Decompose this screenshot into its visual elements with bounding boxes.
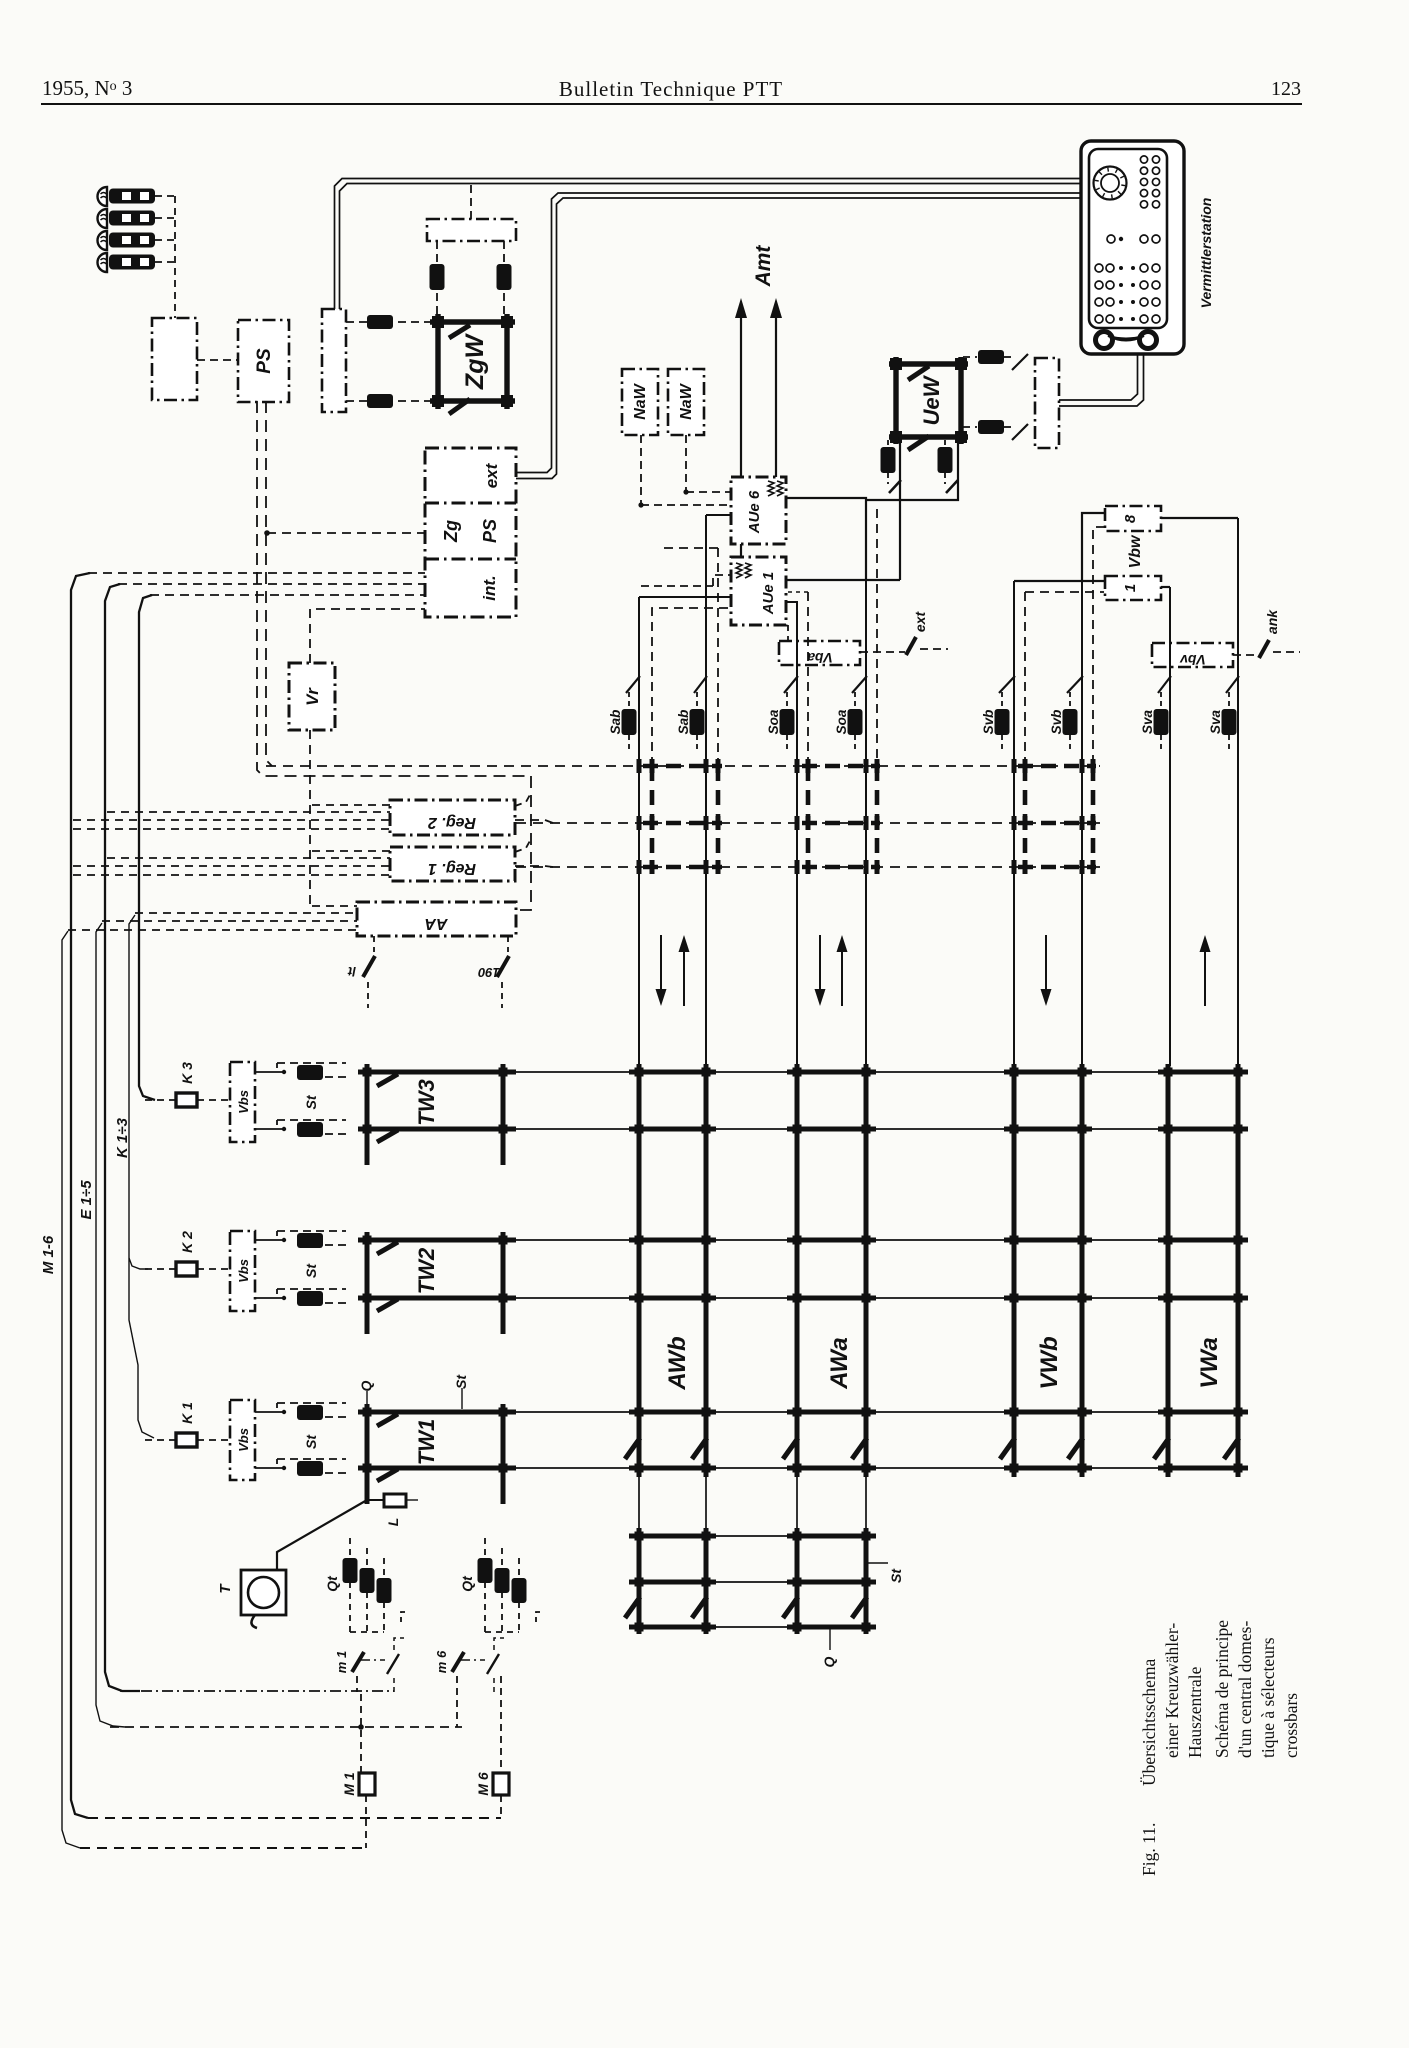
- wire NaW1 to AUe1: [641, 585, 713, 587]
- wire PS junction to Zg: [267, 532, 425, 534]
- wire K1 left: [145, 1439, 176, 1441]
- wire UeW left drop: [899, 437, 901, 580]
- wire m 6 link: [459, 1659, 485, 1661]
- svg-text:190: 190: [477, 965, 499, 980]
- net Amt arrow b: [775, 312, 777, 477]
- key row middle: [1107, 235, 1115, 243]
- leader St: [461, 1388, 463, 1409]
- crossbar switch TW1: [367, 1404, 503, 1504]
- wire dashed corner: [660, 547, 718, 549]
- hook TW1 top: [377, 1414, 398, 1426]
- crossbar grid thick segments: [358, 1072, 1248, 1627]
- svg-text:TW1: TW1: [414, 1419, 439, 1465]
- wire Reg1 right hook: [515, 839, 531, 852]
- wire Vbs stub: [255, 1239, 277, 1241]
- arrow AWa down: [819, 935, 821, 994]
- bus K 1-3 inner wire: [129, 915, 154, 1438]
- jack field: [1095, 264, 1103, 272]
- wire VWb left vertical: [1013, 581, 1015, 1066]
- wire to PS: [197, 359, 238, 361]
- wire Vbw8 left drop: [1082, 513, 1105, 580]
- relay column Sva: [1160, 692, 1162, 708]
- wire Reg2 right hook: [515, 793, 531, 806]
- wire AUe1 to UeW riser: [786, 579, 900, 581]
- svg-text:St: St: [303, 1094, 319, 1109]
- wire M6 top: [500, 1676, 502, 1773]
- svg-text:Sva: Sva: [1140, 710, 1155, 735]
- arrow AWb down: [660, 935, 662, 994]
- wire telephone stub: [155, 195, 175, 197]
- svg-text:Bulletin Technique PTT: Bulletin Technique PTT: [559, 77, 783, 101]
- switch contact ext trunk: [906, 637, 916, 655]
- svg-text:Qt: Qt: [324, 1575, 340, 1592]
- terminal strip at ZgW: [322, 309, 346, 412]
- wire telephone stub: [155, 217, 175, 219]
- wire PS drop b: [266, 401, 272, 766]
- svg-text:Vbw: Vbw: [1127, 534, 1144, 568]
- svg-text:Reg. 2: Reg. 2: [428, 814, 476, 831]
- crossbar grid verticals: [639, 1064, 1238, 1634]
- svg-text:tique à sélecteurs: tique à sélecteurs: [1258, 1637, 1278, 1758]
- svg-text:Vermittlerstation: Vermittlerstation: [1198, 198, 1214, 309]
- wire AWa right vertical: [865, 580, 867, 1066]
- switch contact UeW right: [946, 480, 958, 493]
- svg-text:TW3: TW3: [414, 1079, 439, 1125]
- wire Qt a elbows: [350, 1631, 384, 1633]
- wire AWb left vertical: [638, 597, 640, 1066]
- svg-text:Vbs: Vbs: [236, 1259, 251, 1283]
- line circuit Vbs (K2): [230, 1231, 255, 1311]
- svg-text:Sab: Sab: [608, 710, 623, 735]
- wire Vbs stub: [255, 1297, 277, 1299]
- svg-text:d'un central domes-: d'un central domes-: [1235, 1621, 1255, 1758]
- hook TW3 bottom: [377, 1130, 398, 1142]
- svg-text:M 6: M 6: [475, 1772, 491, 1796]
- wire box up to bus: [470, 184, 472, 219]
- svg-text:einer Kreuzwähler-: einer Kreuzwähler-: [1162, 1623, 1182, 1758]
- contact St: [277, 1403, 283, 1412]
- wire Vbs stub: [255, 1411, 277, 1413]
- relay K2: [176, 1262, 197, 1276]
- header rule: [41, 103, 1302, 105]
- svg-text:1955, No 3: 1955, No 3: [42, 76, 132, 100]
- wire VWa right vertical: [1237, 518, 1239, 1066]
- svg-text:ext: ext: [482, 462, 501, 488]
- svg-text:Qt: Qt: [459, 1575, 475, 1592]
- wire NaW1 to AUe6: [641, 504, 731, 506]
- wire thick dashed vertical x=1025: [1023, 766, 1028, 867]
- switch contact m 1: [352, 1652, 364, 1672]
- wire Vbw1 left feed: [1014, 580, 1105, 582]
- contact St: [277, 1231, 283, 1240]
- wire K2 branch hook: [129, 1258, 148, 1269]
- wire lt drop: [367, 982, 369, 1008]
- resistor heaters AUe1: [736, 563, 742, 578]
- svg-text:UeW: UeW: [919, 374, 944, 425]
- relay column Sva: [1228, 692, 1230, 708]
- svg-text:8: 8: [1122, 514, 1139, 523]
- svg-text:AA: AA: [424, 915, 448, 932]
- wire Vbs stub: [255, 1071, 277, 1073]
- svg-text:NaW: NaW: [632, 382, 649, 419]
- bus M 1-6 inner wire: [62, 931, 80, 1848]
- wire Vbv to ank switch: [1233, 654, 1258, 656]
- svg-text:AUe 1: AUe 1: [760, 572, 777, 616]
- controller box Zg/PS/int/ext: [425, 448, 516, 617]
- svg-text:Soa: Soa: [766, 709, 781, 734]
- wire 190 drop: [501, 982, 503, 1008]
- net link row 2 thin: [516, 822, 1100, 824]
- svg-text:Vr: Vr: [303, 687, 322, 706]
- hook ZgW top: [449, 325, 470, 338]
- wire dashed corner at AUe1: [652, 608, 731, 766]
- wire M bus bottom: [88, 1817, 501, 1819]
- wire ext continue: [920, 648, 948, 650]
- bus E 1-5 inner wire: [96, 923, 125, 1727]
- wire M bus bottom 2: [80, 1847, 366, 1849]
- wire bus E top: [118, 583, 425, 585]
- wire Qt b elbows: [485, 1631, 519, 1633]
- relay column Sab: [628, 692, 630, 708]
- switch contact lt: [363, 956, 375, 977]
- crossbar UeW: [889, 357, 968, 444]
- wire blob stub: [887, 440, 889, 447]
- svg-text:m 6: m 6: [434, 1650, 449, 1673]
- wire NaW2 to AUe6: [686, 491, 731, 493]
- wire right drop: [503, 241, 505, 320]
- svg-text:AWa: AWa: [826, 1337, 853, 1390]
- arrow AWa up: [841, 947, 843, 1006]
- bus K 1-3 outer wire: [139, 595, 155, 1100]
- wire step a: [713, 575, 731, 586]
- wire AW thin continuation: [638, 1477, 640, 1528]
- line unit: [152, 318, 197, 400]
- relay contact upper: [367, 315, 393, 329]
- telephone set 2: [98, 209, 108, 228]
- relay group Qt b: [484, 1538, 486, 1632]
- wire K2 left: [145, 1268, 176, 1270]
- wire TW1 to T: [277, 1500, 367, 1570]
- wire inner double bus (ext) to Vermittlerstation: [516, 193, 1081, 473]
- wire thick dashed vertical x=718: [716, 766, 721, 867]
- wire K3 right: [197, 1099, 230, 1101]
- switch contact UeW left: [889, 480, 901, 493]
- resistor heaters AUe6: [768, 481, 774, 496]
- svg-text:Q: Q: [821, 1656, 837, 1667]
- svg-text:AUe 6: AUe 6: [746, 490, 763, 534]
- hook TW2 top: [377, 1242, 398, 1254]
- wire dashed companion VWb-l: [1024, 592, 1026, 764]
- hook UeW top: [908, 366, 929, 380]
- contact St: [277, 1063, 283, 1072]
- wire bundle 2: [312, 850, 390, 852]
- wire bundle 3: [312, 905, 357, 907]
- crossbar group switch ZgW: [430, 314, 515, 409]
- net link row 3 thin: [516, 866, 1100, 868]
- svg-text:Schéma de principe: Schéma de principe: [1212, 1620, 1232, 1758]
- wire Vbw1 dashed feed: [1025, 591, 1104, 593]
- arrow VWb down: [1045, 935, 1047, 994]
- net link row thick segments y=823: [643, 821, 722, 826]
- svg-text:Hauszentrale: Hauszentrale: [1185, 1666, 1205, 1758]
- lamp field top: [1140, 156, 1147, 163]
- wire dashed companion AWb-r2: [717, 548, 719, 764]
- telephone set 3: [98, 231, 108, 250]
- relay K3: [176, 1093, 197, 1107]
- wire bus K top: [150, 594, 425, 596]
- wire ank continue: [1273, 651, 1300, 653]
- resistor M1: [359, 1773, 375, 1795]
- wire PS drop a: [257, 401, 531, 776]
- svg-text:Vba: Vba: [807, 650, 833, 666]
- svg-text:St: St: [303, 1263, 319, 1278]
- wire UeW right drop: [866, 437, 958, 500]
- contact St: [277, 1459, 283, 1468]
- wire m6 drop: [456, 1676, 458, 1727]
- switch contact m 6: [452, 1652, 464, 1672]
- wire dashed companion AWa-l: [807, 592, 809, 764]
- call distributor AA: [357, 902, 516, 936]
- leader Q: [366, 1391, 368, 1406]
- wire AA left drop: [373, 936, 375, 952]
- svg-text:NaW: NaW: [678, 382, 695, 419]
- switch contact lower link: [1012, 424, 1028, 440]
- svg-text:AWb: AWb: [664, 1336, 691, 1390]
- arrow VWa up: [1204, 947, 1206, 1006]
- svg-text:E 1÷5: E 1÷5: [78, 1180, 95, 1220]
- wire TW1 to L: [367, 1500, 384, 1502]
- wire Vbs stub: [255, 1467, 277, 1469]
- relay contact lower link: [978, 420, 1004, 434]
- svg-text:crossbars: crossbars: [1281, 1693, 1301, 1758]
- wire Vr down: [309, 730, 311, 906]
- wire M1 bottom: [365, 1795, 367, 1848]
- svg-text:Zg: Zg: [441, 520, 461, 543]
- svg-text:VWb: VWb: [1036, 1336, 1063, 1389]
- svg-text:St: St: [303, 1434, 319, 1449]
- selector hooks above TW1 bottom row: [625, 1438, 640, 1459]
- wire telephone stub: [155, 261, 175, 263]
- junctor AUe1: [731, 557, 786, 625]
- line circuit Vbs (K3): [230, 1062, 255, 1142]
- operator station Vermittlerstation: [1081, 141, 1184, 354]
- wire Vba to ext switch: [860, 651, 905, 653]
- wire K3 left: [145, 1099, 176, 1101]
- marker Vbw8: [1105, 506, 1161, 531]
- wire NaW1 down: [640, 435, 642, 505]
- relay contact lower: [367, 394, 393, 408]
- junctor AUe6: [731, 477, 786, 544]
- resistor M6: [493, 1773, 509, 1795]
- svg-text:ext: ext: [912, 611, 928, 633]
- register Reg.2: [390, 800, 515, 835]
- wire thick dashed vertical x=808: [806, 766, 811, 867]
- svg-text:PS: PS: [480, 519, 500, 543]
- net Amt arrow a: [740, 312, 742, 477]
- wire UeW to strip upper: [963, 356, 977, 358]
- telephone T: [241, 1570, 286, 1615]
- wire thick dashed vertical x=877: [875, 766, 880, 867]
- svg-text:L: L: [385, 1518, 401, 1527]
- svg-text:123: 123: [1271, 78, 1301, 100]
- wire bus M top: [88, 572, 425, 574]
- switch contact m 1b: [387, 1654, 399, 1674]
- svg-text:Fig. 11.: Fig. 11.: [1139, 1823, 1159, 1876]
- svg-text:ZgW: ZgW: [461, 333, 489, 391]
- svg-text:Reg. 1: Reg. 1: [428, 860, 476, 877]
- bus E 1-5 outer wire: [105, 584, 140, 1691]
- wire dashed companion AWa-r: [876, 509, 878, 764]
- svg-text:lt: lt: [347, 964, 356, 979]
- wire AWa left vertical: [786, 602, 797, 1066]
- hook TW3 top: [377, 1074, 398, 1086]
- wire m6 feed: [110, 1726, 462, 1728]
- crossbar switch TW2: [367, 1232, 503, 1334]
- wire AA right drop: [507, 936, 509, 952]
- wire telephone collector: [174, 196, 176, 318]
- wire Vbw8 right drop: [1161, 517, 1238, 519]
- svg-text:TW2: TW2: [414, 1247, 439, 1294]
- svg-text:St: St: [453, 1374, 469, 1389]
- wire AUe1 to Vba stub: [787, 625, 789, 643]
- bus M 1-6 outer wire: [71, 573, 90, 1818]
- wire AWb right top corner: [706, 514, 731, 516]
- svg-text:K 3: K 3: [179, 1062, 195, 1084]
- wire M6 bottom: [500, 1795, 502, 1818]
- telephone set 1: [98, 187, 108, 206]
- relay contact right: [497, 264, 512, 290]
- wire Vbs stub: [255, 1128, 277, 1130]
- wire thick dashed vertical x=1093: [1091, 766, 1096, 867]
- telephone set 4: [98, 253, 108, 272]
- wire VWb right vertical: [1081, 580, 1083, 1066]
- switch contact 190: [497, 956, 509, 977]
- wire outer double bus to Vermittlerstation: [335, 179, 1082, 310]
- wire dashed corner AWa: [786, 591, 808, 593]
- wire NaW2 down: [685, 435, 687, 492]
- svg-text:int.: int.: [480, 575, 499, 601]
- svg-text:Sva: Sva: [1208, 710, 1223, 735]
- svg-text:Q: Q: [358, 1380, 374, 1391]
- leader Q bottom: [829, 1627, 831, 1650]
- wire m1 drop: [356, 1676, 358, 1692]
- svg-text:M 1-6: M 1-6: [40, 1235, 57, 1274]
- hook ZgW bottom: [449, 399, 470, 414]
- wire telephone stub: [155, 239, 175, 241]
- hook TW1 bottom: [377, 1469, 398, 1481]
- switch contact upper link: [1012, 354, 1028, 370]
- wire strip to ZgW lower: [346, 400, 436, 402]
- switch contact m 6b: [487, 1654, 499, 1674]
- relay column Svb: [1069, 692, 1071, 708]
- relay column Soa: [786, 692, 788, 708]
- svg-text:Übersichtsschema: Übersichtsschema: [1139, 1658, 1159, 1786]
- svg-text:ank: ank: [1264, 609, 1280, 634]
- resistor L: [384, 1494, 406, 1507]
- selector hooks in bottom grid: [625, 1597, 640, 1618]
- relay contact upper link: [978, 350, 1004, 364]
- wire m1 feed: [120, 1690, 394, 1692]
- contact St: [277, 1120, 283, 1129]
- wire Vbw8 dashed drop: [1093, 527, 1105, 766]
- wire VWa left vertical: [1169, 587, 1171, 1066]
- selector NaW 1: [622, 369, 658, 435]
- crossbar grid bottom thin rows: [629, 1535, 876, 1537]
- crossbar switch TW3: [367, 1064, 503, 1165]
- power supply PS: [238, 320, 289, 402]
- wire AWb-left corner to AUe1: [639, 596, 731, 598]
- relay column Svb: [1001, 692, 1003, 708]
- arrow AWb up: [683, 947, 685, 1006]
- svg-text:M 1: M 1: [341, 1772, 357, 1796]
- wire AUe6-AUe1 link: [740, 544, 742, 557]
- hook TW2 bottom: [377, 1299, 398, 1311]
- wire strip to ZgW upper: [346, 321, 436, 323]
- selector NaW 2: [668, 369, 704, 435]
- relay contact UeW right: [938, 447, 953, 473]
- wire K2 right: [197, 1268, 230, 1270]
- wire bundle 1: [312, 804, 390, 806]
- wire m 1 link: [359, 1659, 385, 1661]
- svg-text:Svb: Svb: [981, 710, 996, 735]
- relay group Qt a: [349, 1538, 351, 1632]
- register Reg.1: [390, 847, 515, 881]
- leader St bottom: [867, 1562, 888, 1564]
- wire right riser: [516, 776, 531, 910]
- wire K1 right: [197, 1439, 230, 1441]
- svg-text:1: 1: [1122, 584, 1139, 592]
- svg-text:K 1÷3: K 1÷3: [114, 1117, 131, 1158]
- wire UeW to strip lower: [963, 426, 977, 428]
- wire Vr up to int: [310, 609, 425, 663]
- handset: [1096, 332, 1113, 349]
- crossbar grid nodes: [635, 1068, 644, 1077]
- net link row thick segments y=766: [643, 764, 722, 769]
- svg-text:Vbv: Vbv: [1179, 652, 1206, 668]
- net link row 1 thin: [266, 765, 1100, 767]
- leader L: [406, 1499, 418, 1501]
- svg-text:K 1: K 1: [179, 1402, 195, 1424]
- relay K1: [176, 1433, 197, 1447]
- svg-text:Amt: Amt: [752, 245, 775, 288]
- svg-text:m 1: m 1: [334, 1651, 349, 1673]
- contact St: [277, 1289, 283, 1298]
- wire AWb right vertical: [705, 515, 707, 1066]
- marker Vbv: [1152, 643, 1233, 667]
- relay set Vr: [289, 663, 335, 730]
- relay column Sab: [696, 692, 698, 708]
- wire AUe6 to UeW riser: [786, 498, 866, 580]
- svg-text:Vbs: Vbs: [236, 1428, 251, 1452]
- svg-text:VWa: VWa: [1196, 1337, 1223, 1389]
- svg-text:Vbs: Vbs: [236, 1090, 251, 1114]
- crossbar grid thin rows: [358, 1071, 1248, 1073]
- wire Vbw1 right drop: [1161, 586, 1170, 588]
- svg-text:PS: PS: [254, 348, 275, 374]
- hook UeW bottom: [908, 436, 929, 450]
- switch contact ank trunk: [1259, 640, 1269, 658]
- register above ZgW: [427, 219, 516, 241]
- marker Vbw1: [1105, 576, 1161, 600]
- relay contact left: [430, 264, 445, 290]
- svg-text:Soa: Soa: [834, 709, 849, 734]
- wire left drop: [436, 241, 438, 320]
- svg-text:Sab: Sab: [676, 710, 691, 735]
- svg-text:Svb: Svb: [1049, 710, 1064, 735]
- net link row thick segments y=867: [643, 865, 722, 870]
- line circuit Vbs (K1): [230, 1400, 255, 1480]
- wire Reg1 to row3: [515, 866, 553, 867]
